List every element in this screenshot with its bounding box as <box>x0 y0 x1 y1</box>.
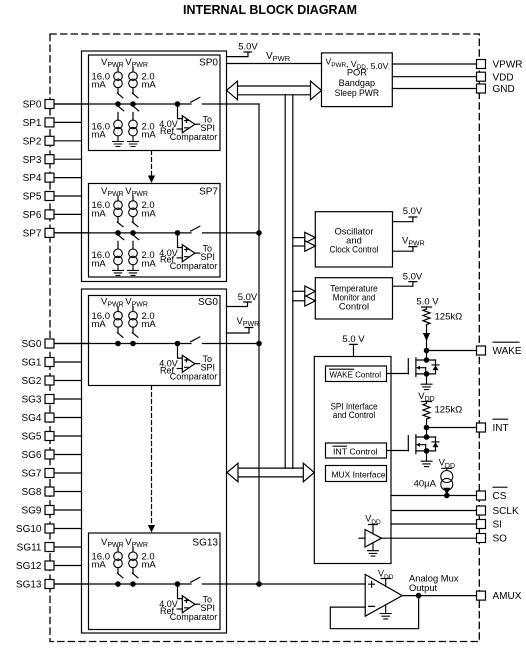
svg-text:SP2: SP2 <box>23 136 42 147</box>
pin SP0 <box>23 100 89 111</box>
block: SPI Interface and Control <box>314 357 391 564</box>
pin SG4 <box>21 413 81 424</box>
SP channel group outer box <box>82 51 227 282</box>
switches from net to lower sources SP0 <box>118 106 139 120</box>
pin SG9 <box>21 506 81 517</box>
svg-text:5.0V: 5.0V <box>403 206 423 217</box>
svg-text:SP1: SP1 <box>23 118 42 129</box>
ground symbols under lower sources SP0 <box>113 136 139 147</box>
pin VPWR <box>477 60 523 71</box>
5.0V supply (SG group) <box>227 292 258 307</box>
block U-POR: POR / Bandgap / Sleep PWR <box>322 53 393 107</box>
svg-text:5.0V: 5.0V <box>238 292 258 303</box>
svg-text:SCLK: SCLK <box>493 506 519 517</box>
svg-text:Comparator: Comparator <box>170 612 218 622</box>
svg-text:SG1: SG1 <box>21 358 41 369</box>
bus arrow SG group to SPI interface <box>227 463 314 482</box>
current source 40uA <box>414 471 453 496</box>
ground symbols under lower sources SP7 <box>113 265 139 276</box>
pin SG0 <box>21 339 88 350</box>
pin AMUX <box>477 591 522 602</box>
svg-text:SG12: SG12 <box>16 561 42 572</box>
net wire SP0 <box>55 103 260 105</box>
svg-text:VPWR: VPWR <box>493 60 523 71</box>
svg-text:mA: mA <box>142 209 157 220</box>
VPWR supply (SG group) <box>227 316 260 333</box>
svg-text:INT Control: INT Control <box>333 446 378 456</box>
arrow on WAKE pull-up wire <box>423 326 430 351</box>
svg-text:Comparator: Comparator <box>170 372 218 382</box>
svg-text:SG11: SG11 <box>17 543 42 554</box>
pin SG3 <box>21 395 81 406</box>
block: Oscillator and Clock Control <box>315 212 392 267</box>
svg-text:SG10: SG10 <box>16 524 42 535</box>
switches from upper sources to net SP7 <box>117 217 138 227</box>
wire SPI block to SI pin <box>391 523 477 525</box>
VPWR supply labels SG0 <box>101 297 148 312</box>
pin SG2 <box>21 376 81 387</box>
svg-text:SP5: SP5 <box>23 192 42 203</box>
series switch to mux bus SG0 <box>191 337 200 342</box>
5.0V supply (oscillator) <box>393 206 423 222</box>
svg-text:Sleep PWR: Sleep PWR <box>335 88 380 98</box>
bus branch arrow to temperature monitor (upper) <box>293 286 316 297</box>
series switch to mux bus SG13 <box>191 577 200 582</box>
switches from upper sources to net SP0 <box>117 88 138 98</box>
svg-text:INT: INT <box>493 423 509 434</box>
junction nodes on net SG13 <box>116 582 180 586</box>
svg-text:mA: mA <box>142 80 157 91</box>
svg-text:mA: mA <box>92 259 107 270</box>
svg-text:MUX Interface: MUX Interface <box>332 470 386 480</box>
buffer U2 (SO output driver) <box>359 514 382 547</box>
comparator SG0 <box>159 344 217 382</box>
pin SG11 <box>17 543 82 554</box>
channel block SP0 inner box <box>89 55 221 151</box>
junction nodes on net SP7 <box>116 231 180 235</box>
ground (SO buffer) <box>368 543 379 557</box>
svg-text:SG7: SG7 <box>21 469 41 480</box>
bus branch arrow to temperature monitor (lower) <box>293 296 316 307</box>
pin SP3 <box>23 155 82 166</box>
svg-text:GND: GND <box>493 84 515 95</box>
wire buffer to SO pin <box>382 537 477 539</box>
net wire SG13 <box>55 583 366 585</box>
chip boundary (dashed) <box>50 34 479 642</box>
svg-text:Comparator: Comparator <box>170 132 218 142</box>
node on CS wire <box>445 493 449 497</box>
analog mux collect wire (vertical) <box>258 104 260 584</box>
node on AMUX wire <box>416 593 420 597</box>
svg-text:5.0 V: 5.0 V <box>416 297 439 308</box>
svg-text:mA: mA <box>142 130 157 141</box>
switches from upper sources to net SG13 <box>117 568 138 578</box>
feedback wire op-amp output to - input <box>330 596 418 629</box>
net wire SG0 <box>55 343 260 345</box>
svg-text:INTERNAL BLOCK DIAGRAM: INTERNAL BLOCK DIAGRAM <box>183 2 357 17</box>
svg-text:Bandgap: Bandgap <box>339 78 376 88</box>
pin SG8 <box>21 487 81 498</box>
current source 2.0 mA (upper) SG13 <box>129 551 157 570</box>
current source 16.0 mA (lower) SP7 <box>92 249 123 270</box>
5.0V supply (top) <box>227 42 259 57</box>
svg-text:SP3: SP3 <box>23 155 42 166</box>
current source 2.0 mA (upper) SP7 <box>129 200 157 219</box>
current source 2.0 mA (upper) SP0 <box>129 71 157 90</box>
current source 16.0 mA (lower) SP0 <box>92 120 123 141</box>
svg-text:SG13: SG13 <box>192 538 218 549</box>
wire VPWR to POR block <box>227 63 322 65</box>
current source 16.0 mA (upper) SG13 <box>92 551 123 570</box>
svg-text:mA: mA <box>92 560 107 571</box>
channel block SP7 inner box <box>89 184 221 278</box>
node INT <box>424 425 428 429</box>
wire POR to GND pin <box>392 88 476 90</box>
svg-text:Output: Output <box>409 582 438 593</box>
bus arrow SP group to POR <box>227 81 322 100</box>
wire SPI block to CS pin <box>391 495 477 497</box>
VDD supply (40uA source) <box>439 458 455 471</box>
bus branch arrow to oscillator (upper) <box>293 232 316 243</box>
sub-block: WAKE Control <box>326 366 387 382</box>
comparator SP7 <box>159 233 217 271</box>
svg-text:Control: Control <box>339 301 369 312</box>
svg-text:SG4: SG4 <box>21 413 41 424</box>
dashed continuation arrow SG0 to SG13 <box>148 386 155 533</box>
bus branch arrow to oscillator (lower) <box>293 241 316 252</box>
svg-text:AMUX: AMUX <box>493 591 522 602</box>
switches from net to lower sources SP7 <box>118 235 139 249</box>
svg-text:mA: mA <box>92 130 107 141</box>
pin SO <box>477 534 508 545</box>
comparator SP0 <box>159 104 217 142</box>
svg-text:Comparator: Comparator <box>170 261 218 271</box>
junction nodes on net SG0 <box>116 341 180 345</box>
pin SG10 <box>16 524 82 535</box>
junction nodes on net SP0 <box>116 102 180 106</box>
wire node to WAKE pin <box>427 350 477 352</box>
current source 16.0 mA (upper) SP7 <box>92 200 123 219</box>
svg-text:5.0V: 5.0V <box>238 42 258 53</box>
ground (op-amp) <box>380 606 391 619</box>
svg-text:5.0 V: 5.0 V <box>342 334 365 345</box>
svg-text:SG2: SG2 <box>21 376 41 387</box>
svg-text:SP0: SP0 <box>199 58 218 69</box>
pin WAKE <box>477 342 522 357</box>
svg-text:SG13: SG13 <box>16 580 42 591</box>
svg-text:125kΩ: 125kΩ <box>435 404 463 415</box>
wire node to INT pin <box>427 427 477 429</box>
op-amp U3 (analog mux output) <box>365 569 402 617</box>
pin SG6 <box>21 450 81 461</box>
pin SP4 <box>23 173 82 184</box>
VPWR supply labels SP0 <box>101 57 148 72</box>
resistor 125k (WAKE pull-up) <box>423 307 462 326</box>
svg-text:SG9: SG9 <box>21 506 41 517</box>
svg-text:125kΩ: 125kΩ <box>435 312 463 323</box>
svg-text:CS: CS <box>493 491 507 502</box>
transistor Q1 WAKE driver (N-MOSFET) <box>387 351 439 385</box>
node WAKE <box>424 348 428 352</box>
current source 16.0 mA (upper) SG0 <box>92 311 123 330</box>
5.0V supply (temperature) <box>393 272 423 287</box>
svg-text:SG6: SG6 <box>21 450 41 461</box>
pin SCLK <box>477 506 519 517</box>
comparator SG13 <box>159 584 217 622</box>
VPWR supply labels SG13 <box>101 537 148 552</box>
wire op-amp output to AMUX pin <box>402 595 476 597</box>
svg-text:mA: mA <box>92 209 107 220</box>
pin SG13 <box>16 580 89 591</box>
svg-text:SO: SO <box>493 534 508 545</box>
svg-text:mA: mA <box>92 319 107 330</box>
svg-text:SP7: SP7 <box>23 229 42 240</box>
VPWR supply labels SP7 <box>101 186 148 201</box>
svg-text:40µA: 40µA <box>414 478 437 489</box>
svg-text:VDD: VDD <box>493 72 514 83</box>
svg-text:mA: mA <box>142 560 157 571</box>
sub-block: INT Control <box>326 443 387 458</box>
dashed continuation arrow SP0 to SP7 <box>148 151 155 184</box>
pin SP6 <box>23 210 82 221</box>
transistor Q2 INT driver (N-MOSFET) <box>387 428 439 462</box>
VDD supply (INT pull-up) <box>418 391 434 403</box>
pin SG12 <box>16 561 82 572</box>
5.0 V supply (WAKE pull-up) <box>416 297 439 308</box>
pin SP2 <box>23 136 82 147</box>
sub-block: MUX Interface <box>326 466 387 482</box>
wire SPI block to SCLK pin <box>391 510 477 512</box>
junction nodes on collect wire <box>257 231 261 587</box>
wire POR to VDD pin <box>392 76 476 78</box>
pin SP1 <box>23 118 82 129</box>
current source 2.0 mA (lower) SP0 <box>129 120 157 141</box>
svg-text:mA: mA <box>142 259 157 270</box>
svg-text:SI: SI <box>493 520 502 531</box>
resistor 125k (INT pull-up) <box>423 402 462 428</box>
bus wire (left vertical) <box>284 95 286 468</box>
switches from upper sources to net SG0 <box>117 327 138 337</box>
SG channel group outer box <box>82 289 227 633</box>
pin GND <box>477 84 515 95</box>
pin VDD <box>477 72 514 83</box>
svg-text:SG3: SG3 <box>21 395 41 406</box>
pin CS <box>477 487 508 502</box>
pin INT <box>477 419 509 434</box>
5.0 V supply (SPI block) <box>342 334 365 357</box>
svg-text:SP7: SP7 <box>199 186 218 197</box>
svg-text:POR: POR <box>347 68 367 78</box>
channel block SG13 inner box <box>89 533 221 630</box>
svg-text:WAKE Control: WAKE Control <box>330 369 382 379</box>
pin SP5 <box>23 192 82 203</box>
net wire SP7 <box>55 232 260 234</box>
svg-text:Clock Control: Clock Control <box>330 244 379 255</box>
svg-text:SG5: SG5 <box>21 432 41 443</box>
channel block SG0 inner box <box>89 296 221 386</box>
current source 2.0 mA (lower) SP7 <box>129 249 157 270</box>
svg-text:and Control: and Control <box>333 409 376 420</box>
block: Temperature Monitor and Control <box>315 278 392 319</box>
pin SI <box>477 520 502 531</box>
svg-text:SG8: SG8 <box>21 487 41 498</box>
current source 2.0 mA (upper) SG0 <box>129 311 157 330</box>
VPWR supply (oscillator) <box>393 235 425 251</box>
label Analog Mux Output <box>409 573 459 593</box>
ground (Q2 INT driver source) <box>421 461 432 466</box>
ground (Q1 WAKE driver source) <box>421 384 432 389</box>
series switch to mux bus SP7 <box>191 226 200 231</box>
pin SG5 <box>21 432 81 443</box>
pin SG1 <box>21 358 81 369</box>
svg-text:mA: mA <box>142 319 157 330</box>
svg-text:SP4: SP4 <box>23 173 42 184</box>
svg-text:WAKE: WAKE <box>493 346 522 357</box>
svg-text:mA: mA <box>92 80 107 91</box>
svg-text:SG0: SG0 <box>21 339 41 350</box>
svg-text:5.0V: 5.0V <box>403 272 423 283</box>
current source 16.0 mA (upper) SP0 <box>92 71 123 90</box>
bus wire (right vertical) <box>292 95 294 468</box>
wire POR to VPWR pin <box>392 63 476 65</box>
series switch to mux bus SP0 <box>191 97 200 102</box>
pin SG7 <box>21 469 81 480</box>
pin SP7 <box>23 228 89 239</box>
svg-text:SG0: SG0 <box>198 297 218 308</box>
svg-text:SP6: SP6 <box>23 210 42 221</box>
svg-text:SP0: SP0 <box>23 100 42 111</box>
